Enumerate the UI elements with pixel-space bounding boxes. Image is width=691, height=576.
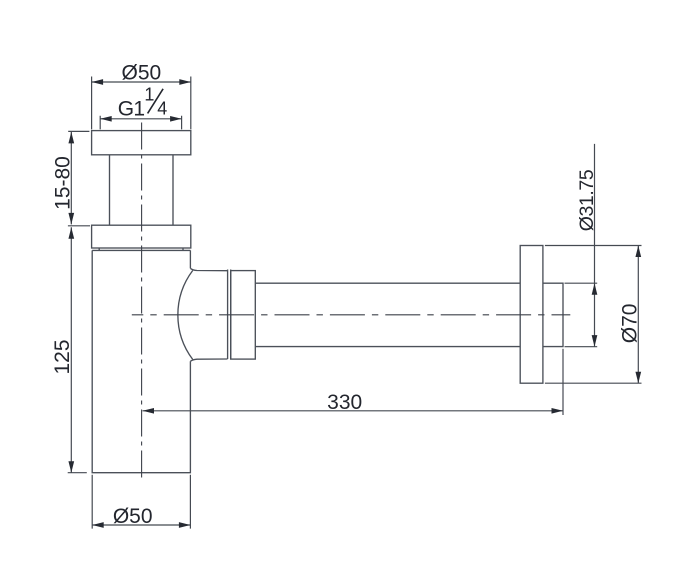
arrow G1 right — [170, 116, 182, 122]
dim 125: dimension line — [70, 227, 72, 473]
arrow 330 left — [143, 408, 155, 414]
horizontal centerline — [132, 314, 571, 316]
dim Ø50 bottom: extension lines — [92, 475, 190, 529]
dim Ø31.75: dimension line — [594, 144, 596, 347]
dim G1 1/4: dimension line — [100, 118, 181, 120]
outlet dome arc — [178, 271, 193, 360]
arrow Ø70 down — [635, 372, 641, 384]
arrow Ø50 bottom right — [179, 522, 191, 528]
dim Ø50 bottom: dimension line — [92, 524, 190, 526]
arrow Ø50 top right — [179, 79, 191, 85]
svg-text:330: 330 — [327, 391, 362, 414]
svg-text:4: 4 — [157, 98, 167, 118]
arrow 125 down — [68, 461, 74, 473]
svg-text:15-80: 15-80 — [51, 156, 74, 210]
bottle body — [92, 250, 190, 472]
vertical centerline — [141, 123, 143, 481]
top flange — [92, 131, 191, 155]
arrow Ø31.75 up — [592, 283, 598, 295]
svg-text:Ø70: Ø70 — [619, 304, 642, 344]
arrow Ø50 bottom left — [92, 522, 104, 528]
svg-text:125: 125 — [51, 339, 74, 374]
dim 330: extension line — [562, 349, 564, 415]
horizontal pipe — [255, 283, 520, 346]
dim Ø50 top: extension lines — [92, 77, 191, 130]
svg-text:G1: G1 — [118, 98, 145, 121]
dim 125: extension tick — [68, 472, 87, 474]
svg-text:Ø31.75: Ø31.75 — [576, 169, 598, 231]
dim Ø31.75: extension lines — [565, 283, 598, 347]
pipe stub to wall — [543, 283, 563, 346]
arrow 15-80 down — [68, 213, 74, 225]
wall flange — [520, 246, 543, 384]
svg-text:Ø50: Ø50 — [122, 61, 162, 84]
arrow Ø31.75 down — [592, 335, 598, 347]
upper body nut — [92, 225, 191, 248]
dim 15-80: extension ticks — [68, 131, 90, 225]
dim Ø50 top: dimension line — [92, 81, 191, 83]
svg-text:1: 1 — [144, 85, 154, 105]
svg-text:Ø50: Ø50 — [113, 505, 153, 528]
arrow Ø50 top left — [92, 79, 104, 85]
dim 330: dimension line — [143, 410, 564, 412]
dim Ø70: extension lines — [545, 246, 642, 384]
dim Ø70: dimension line — [637, 246, 639, 384]
body top edge — [92, 248, 190, 250]
label fraction slash — [148, 89, 164, 114]
outlet shoulder — [190, 268, 227, 361]
dim 15-80: dimension line — [70, 131, 72, 224]
arrow Ø70 up — [635, 246, 641, 258]
dim G1 1/4: extension ticks — [100, 116, 181, 130]
arrow 15-80 up — [68, 132, 74, 144]
compression nut — [231, 271, 256, 360]
arrow 330 right — [552, 408, 564, 414]
arrow 125 up — [68, 227, 74, 239]
compression ring — [228, 270, 231, 360]
arrow G1 left — [100, 116, 112, 122]
stem — [110, 155, 174, 225]
